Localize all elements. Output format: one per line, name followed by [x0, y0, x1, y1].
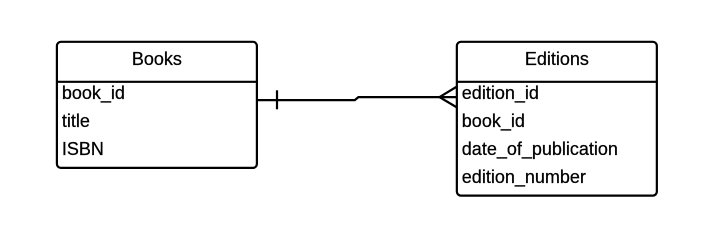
- svg-text:edition_id: edition_id: [462, 83, 539, 104]
- svg-text:book_id: book_id: [462, 111, 525, 132]
- svg-text:date_of_publication: date_of_publication: [462, 139, 618, 160]
- svg-text:Books: Books: [132, 49, 182, 69]
- svg-text:Editions: Editions: [525, 49, 589, 69]
- svg-text:ISBN: ISBN: [62, 139, 104, 159]
- svg-text:title: title: [62, 111, 90, 131]
- svg-text:edition_number: edition_number: [462, 167, 586, 188]
- svg-text:book_id: book_id: [62, 83, 125, 104]
